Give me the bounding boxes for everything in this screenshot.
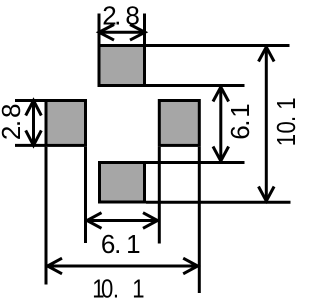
svg-text:6.1: 6.1 (225, 103, 255, 139)
svg-text:2.8: 2.8 (102, 1, 140, 31)
svg-text:10.1: 10.1 (272, 98, 301, 147)
svg-text:2.8: 2.8 (0, 104, 26, 141)
svg-text:10.1: 10.1 (92, 275, 144, 304)
svg-text:6.1: 6.1 (101, 229, 141, 259)
